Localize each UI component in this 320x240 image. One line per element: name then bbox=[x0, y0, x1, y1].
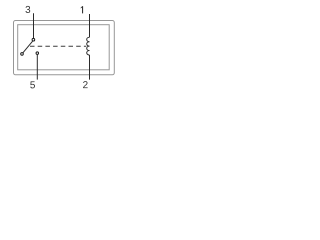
pin 2 wire bbox=[89, 55, 91, 80]
inner body box bbox=[18, 25, 110, 70]
relay K1 schematic bbox=[0, 0, 125, 96]
contact circle A (pivot, pin 3) bbox=[32, 38, 35, 41]
pin 5 label bbox=[30, 81, 35, 88]
pin 3 label bbox=[25, 6, 30, 13]
pin 2 label bbox=[83, 81, 88, 88]
pin 1 label bbox=[81, 6, 83, 13]
outer body box bbox=[14, 21, 115, 75]
contact circle C (pin 5 fixed contact) bbox=[36, 52, 39, 55]
pin 3 wire bbox=[33, 13, 35, 38]
switch arm bbox=[23, 41, 33, 53]
coil L1 bbox=[87, 37, 90, 55]
actuation dashed link bbox=[30, 45, 86, 47]
pin 5 wire bbox=[36, 55, 38, 80]
pin 1 wire bbox=[89, 14, 91, 37]
contact circle B (arm tip) bbox=[21, 53, 24, 56]
